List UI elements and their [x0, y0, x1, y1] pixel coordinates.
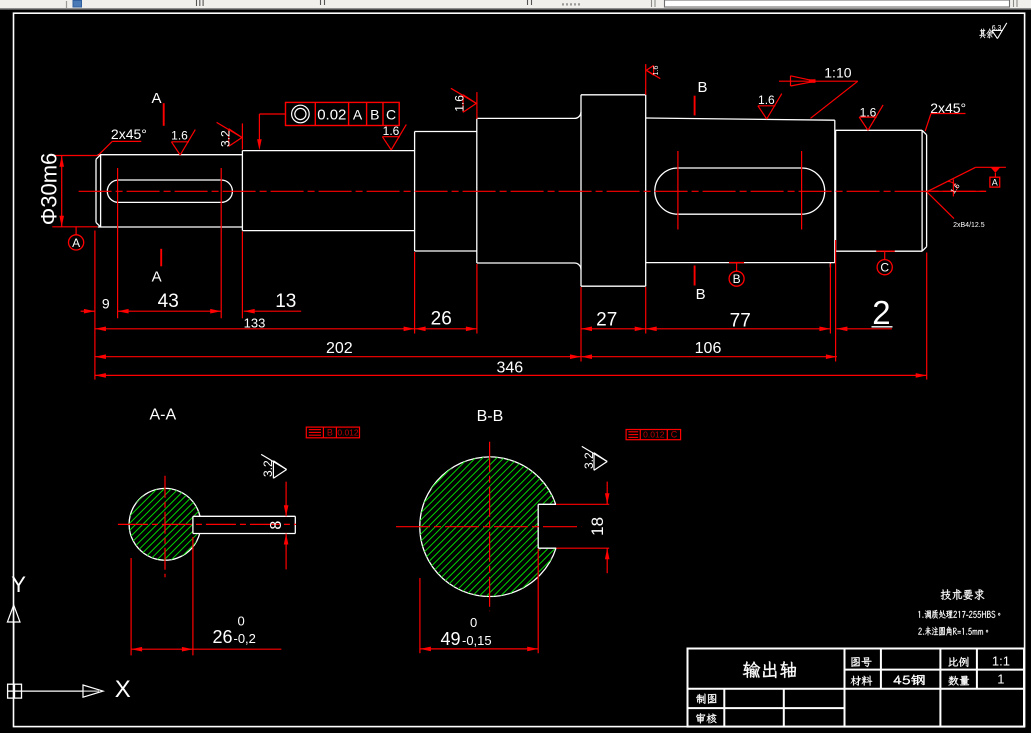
svg-text:A: A	[992, 177, 998, 187]
svg-text:A: A	[353, 106, 363, 122]
svg-text:C: C	[880, 261, 889, 275]
svg-text:26: 26	[431, 309, 452, 330]
svg-text:-0,15: -0,15	[462, 633, 492, 648]
svg-text:77: 77	[730, 311, 751, 332]
svg-text:49: 49	[441, 629, 461, 649]
svg-text:1.6: 1.6	[653, 66, 660, 76]
svg-text:B: B	[370, 106, 379, 122]
svg-text:A: A	[151, 90, 161, 107]
svg-text:1.6: 1.6	[383, 124, 400, 138]
svg-text:106: 106	[695, 340, 722, 357]
svg-text:1:10: 1:10	[824, 65, 851, 81]
svg-text:3.2: 3.2	[582, 452, 596, 469]
svg-text:C: C	[671, 430, 678, 440]
svg-text:13: 13	[275, 291, 296, 312]
svg-text:B: B	[327, 428, 333, 438]
svg-text:1.6: 1.6	[171, 129, 188, 143]
svg-text:X: X	[115, 676, 131, 703]
svg-text:B: B	[733, 272, 741, 286]
svg-text:18: 18	[588, 517, 607, 536]
svg-text:Φ30m6: Φ30m6	[37, 153, 62, 226]
svg-text:1: 1	[997, 672, 1004, 687]
svg-text:9: 9	[102, 295, 110, 311]
svg-text:0.012: 0.012	[337, 428, 359, 438]
svg-text:2x45°: 2x45°	[111, 126, 147, 142]
svg-text:Y: Y	[11, 572, 26, 597]
svg-text:2xB4/12.5: 2xB4/12.5	[953, 222, 985, 229]
svg-text:A-A: A-A	[149, 407, 176, 424]
svg-text:B: B	[697, 79, 707, 96]
svg-text:8: 8	[268, 521, 285, 530]
svg-text:1.6: 1.6	[758, 93, 775, 107]
svg-text:2: 2	[872, 294, 890, 331]
svg-text:0: 0	[238, 614, 245, 629]
svg-text:26: 26	[213, 627, 233, 647]
svg-text:A: A	[72, 236, 80, 250]
svg-text:202: 202	[326, 340, 353, 357]
svg-text:1:1: 1:1	[992, 654, 1010, 669]
svg-text:43: 43	[158, 291, 179, 312]
svg-text:1.6: 1.6	[452, 95, 466, 112]
svg-text:0.012: 0.012	[643, 430, 665, 440]
svg-text:6.3: 6.3	[992, 25, 1002, 32]
svg-text:C: C	[386, 106, 396, 122]
svg-text:B: B	[696, 286, 706, 303]
svg-text:0.02: 0.02	[317, 106, 346, 123]
svg-text:1.6: 1.6	[860, 106, 877, 120]
svg-text:3.2: 3.2	[261, 460, 275, 477]
svg-text:133: 133	[244, 316, 266, 331]
svg-text:3.2: 3.2	[219, 130, 233, 147]
svg-text:A: A	[152, 269, 162, 286]
svg-text:0: 0	[470, 615, 477, 630]
svg-text:27: 27	[596, 309, 617, 330]
svg-text:-0,2: -0,2	[234, 631, 256, 646]
